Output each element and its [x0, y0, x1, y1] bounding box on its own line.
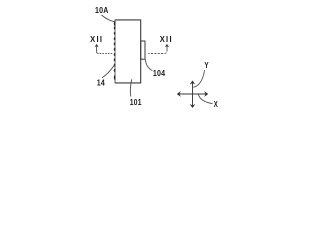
svg-text:14: 14 [97, 78, 106, 88]
svg-text:104: 104 [153, 69, 166, 79]
svg-text:XII: XII [160, 35, 173, 44]
svg-text:Y: Y [204, 60, 208, 70]
svg-text:10A: 10A [95, 6, 109, 16]
svg-text:101: 101 [130, 97, 142, 107]
svg-text:XII: XII [90, 35, 103, 44]
svg-text:X: X [214, 101, 218, 109]
